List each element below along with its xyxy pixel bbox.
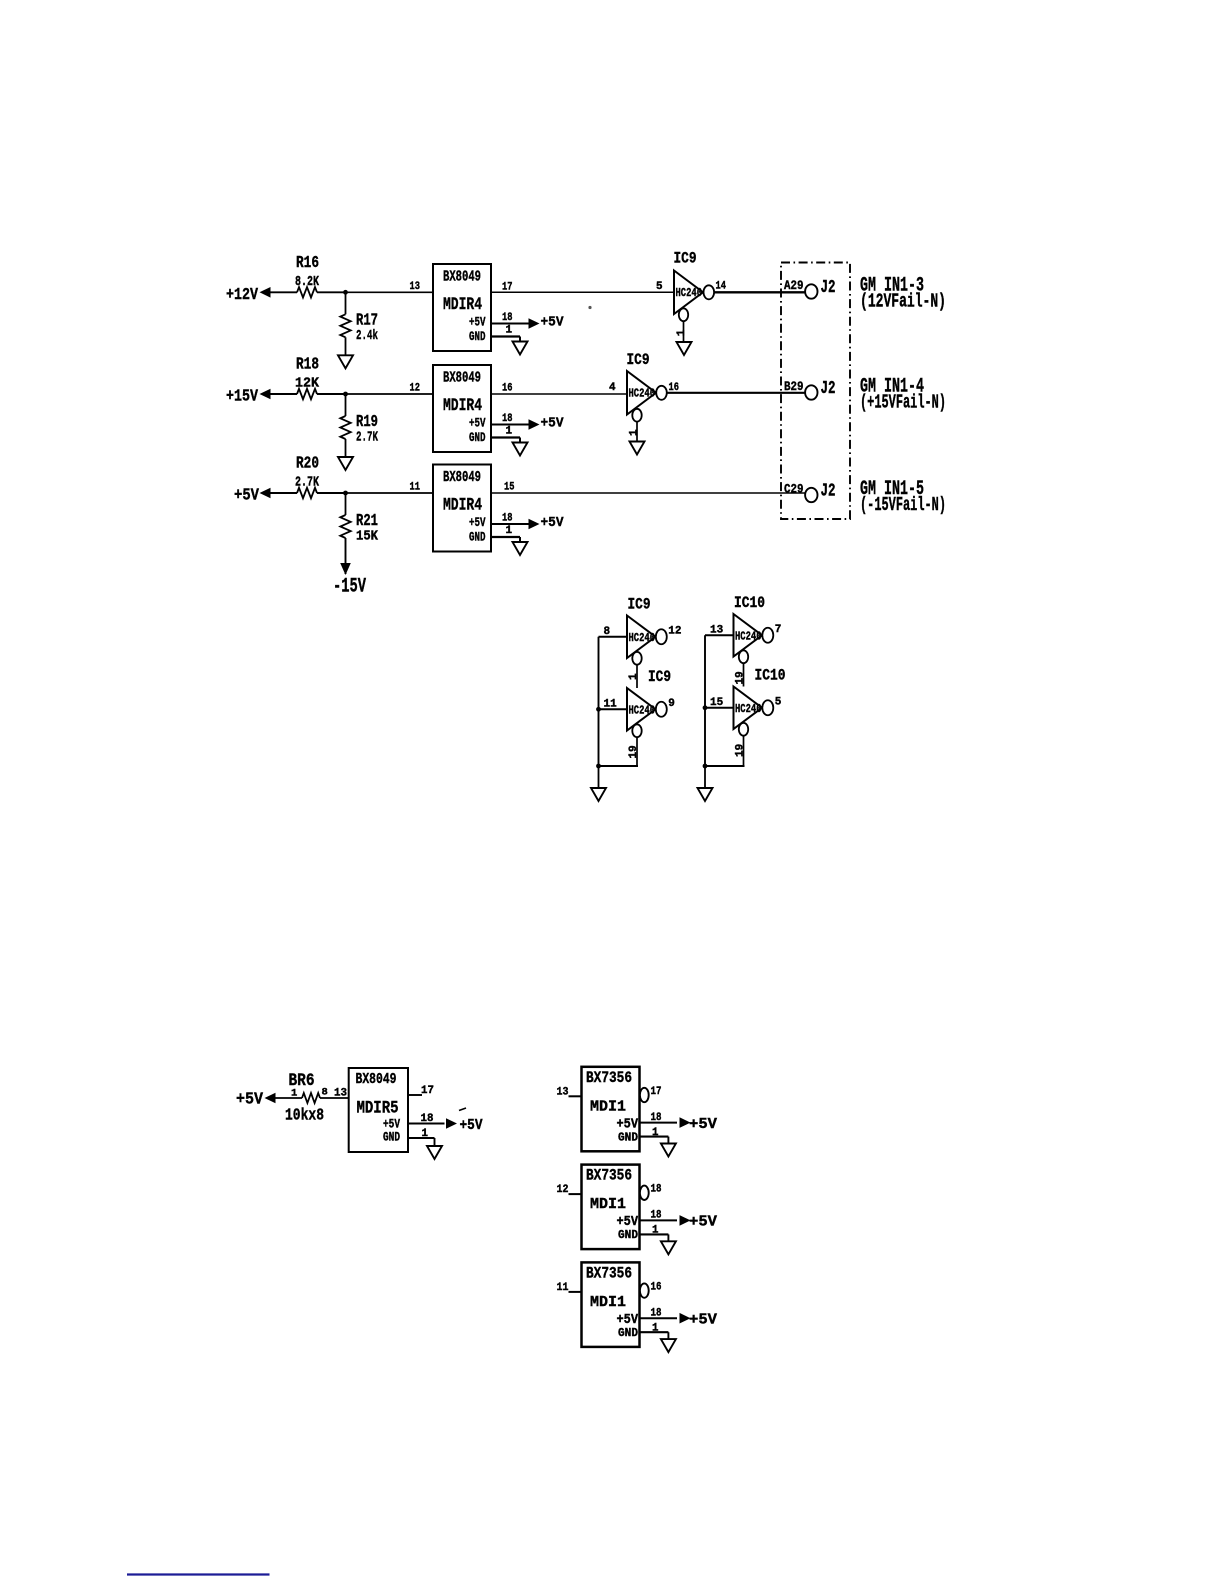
IC BX7356 MDI1 #3 box <box>582 1262 640 1347</box>
wire R16 to node <box>317 291 346 293</box>
svg-text:(-15VFail-N): (-15VFail-N) <box>860 494 946 516</box>
svg-text:MDI1: MDI1 <box>590 1294 626 1311</box>
IC9 gate A output bubble pin 14 <box>704 281 727 300</box>
svg-text:IC9: IC9 <box>627 351 650 369</box>
svg-text:8: 8 <box>322 1087 328 1099</box>
node junction row1 <box>343 290 348 295</box>
svg-text:18: 18 <box>502 513 513 525</box>
op-amp buffer IC10 gate 1 <box>734 594 766 657</box>
wire +5V arrow <box>260 488 298 499</box>
svg-text:13: 13 <box>410 281 421 293</box>
op-amp buffer IC9 gate A (row1) <box>674 250 704 315</box>
svg-text:12: 12 <box>410 383 421 395</box>
svg-text:19: 19 <box>735 671 747 684</box>
MDIR4 pin 1 GND wire <box>491 426 520 443</box>
svg-text:10kx8: 10kx8 <box>285 1107 324 1126</box>
svg-text:+5V: +5V <box>541 515 565 531</box>
svg-text:BX8049: BX8049 <box>443 370 481 387</box>
IC BX7356 MDI1 #2 box <box>582 1165 640 1250</box>
op-amp buffer IC9 gate 1 <box>627 596 656 659</box>
resistor R18 <box>295 355 320 400</box>
IC10 gate2 enable bubble <box>739 723 748 736</box>
ground at MDIR4 row1 <box>513 342 528 355</box>
svg-text:HC240: HC240 <box>629 387 656 401</box>
MDIR4 pin 1 GND wire <box>491 525 520 542</box>
svg-text:+5V: +5V <box>460 1118 483 1134</box>
net +5V at MDI1 #3 <box>689 1312 717 1328</box>
svg-text:MDIR5: MDIR5 <box>357 1099 399 1119</box>
wire to -15V arrow <box>340 538 351 575</box>
svg-text:MDI1: MDI1 <box>590 1098 626 1115</box>
svg-text:+5V: +5V <box>541 416 565 432</box>
input rail wire for IC9 pair <box>598 637 600 766</box>
wire node to MDIR4 pin 11 <box>346 482 434 494</box>
op-amp buffer IC9 gate 2 <box>627 668 671 731</box>
MDIR4 pin 18 +5V wire <box>491 513 540 530</box>
wire input pin 13 of IC10 gate1 <box>705 624 734 636</box>
svg-text:GND: GND <box>469 531 486 545</box>
wire +12V arrow <box>260 287 298 298</box>
svg-text:1: 1 <box>676 329 688 336</box>
svg-text:J2: J2 <box>821 277 836 298</box>
wire BR6 to MDIR5 pin 13 <box>320 1097 349 1099</box>
bottom wire IC9 pair <box>596 764 638 769</box>
wire input pin 15 of IC10 gate2 <box>703 697 734 710</box>
wire MDIR4 pin 15 to J2 C29 <box>491 482 805 494</box>
IC BX7356 MDI1 #1 input pin 13 <box>557 1086 582 1098</box>
node junction row3 <box>343 491 348 496</box>
wire MDIR4 pin 17 to IC9 input pin 5 <box>491 281 674 294</box>
svg-text:-15V: -15V <box>333 576 366 599</box>
svg-text:+5V: +5V <box>541 315 565 331</box>
svg-text:11: 11 <box>410 482 421 494</box>
MDIR4 pin 18 +5V wire <box>491 312 540 329</box>
svg-text:(12VFail-N): (12VFail-N) <box>860 290 946 312</box>
MDI1 #2 pin 1 GND wire <box>640 1225 669 1242</box>
IC9 gate1 output bubble pin 12 <box>656 625 682 644</box>
ground IC10 pair <box>698 788 713 801</box>
svg-text:13: 13 <box>557 1086 569 1098</box>
svg-text:4: 4 <box>609 382 616 394</box>
connector pin A29 J2 <box>784 277 836 299</box>
ground at MDI1 #1 <box>661 1144 676 1157</box>
net +5V at BR6 <box>236 1091 264 1110</box>
IC10 gate2 output bubble pin 5 <box>762 696 782 715</box>
ground at MDI1 #3 <box>661 1339 676 1352</box>
resistor R19 <box>340 394 378 446</box>
svg-text:GND: GND <box>618 1327 638 1340</box>
node junction row2 <box>343 392 348 397</box>
net +5V row2 <box>541 416 565 432</box>
svg-text:15: 15 <box>710 697 724 709</box>
svg-text:19: 19 <box>735 744 747 757</box>
wire node to MDIR4 pin 13 <box>346 281 434 293</box>
svg-text:MDIR4: MDIR4 <box>443 496 482 516</box>
svg-text:13: 13 <box>710 624 724 636</box>
resistor R20 <box>295 454 320 499</box>
svg-text:+5V: +5V <box>469 417 486 431</box>
svg-text:18: 18 <box>421 1113 434 1125</box>
IC U1 BX8049 MDIR4 box <box>433 264 491 351</box>
svg-text:15: 15 <box>504 482 515 494</box>
wire IC9 gate B output to J2 B29 <box>667 392 805 394</box>
svg-text:+5V: +5V <box>689 1215 717 1231</box>
resistor R21 <box>340 493 379 545</box>
net +5V at MDIR5 <box>459 1108 483 1134</box>
IC BX7356 MDI1 #3 input pin 11 <box>557 1282 582 1294</box>
svg-text:14: 14 <box>716 281 727 293</box>
svg-text:MDI1: MDI1 <box>590 1196 626 1213</box>
svg-text:MDIR4: MDIR4 <box>443 396 482 416</box>
svg-text:+5V: +5V <box>234 486 259 505</box>
svg-text:GND: GND <box>618 1131 638 1144</box>
MDIR5 pin 1 GND wire <box>408 1128 435 1146</box>
IC9 gate B enable bubble <box>632 409 641 422</box>
svg-text:12: 12 <box>557 1184 569 1196</box>
svg-text:BX7356: BX7356 <box>586 1167 632 1185</box>
svg-text:1: 1 <box>629 429 641 436</box>
svg-text:1: 1 <box>506 525 513 537</box>
svg-text:R16: R16 <box>296 253 319 272</box>
net rail +15V <box>226 387 258 406</box>
svg-text:BX7356: BX7356 <box>586 1264 632 1282</box>
svg-text:1: 1 <box>652 1127 659 1139</box>
ground below R19 <box>338 439 353 470</box>
svg-text:18: 18 <box>502 413 513 425</box>
svg-text:A29: A29 <box>784 279 804 293</box>
svg-text:7: 7 <box>775 624 782 636</box>
svg-text:18: 18 <box>651 1184 662 1196</box>
svg-text:MDIR4: MDIR4 <box>443 295 482 315</box>
svg-text:15K: 15K <box>356 530 379 545</box>
svg-text:17: 17 <box>421 1085 434 1097</box>
MDI1 #1 output bubble pin 17 <box>640 1086 662 1102</box>
bottom wire IC10 pair <box>703 764 745 769</box>
svg-text:+5V: +5V <box>689 1117 717 1133</box>
svg-text:IC9: IC9 <box>674 250 697 268</box>
net -15V <box>333 576 366 599</box>
svg-text:16: 16 <box>651 1281 662 1293</box>
svg-text:IC9: IC9 <box>628 596 651 614</box>
IC9 gate A enable bubble <box>679 308 688 321</box>
MDIR4 pin 18 +5V wire <box>491 413 540 430</box>
svg-text:(+15VFail-N): (+15VFail-N) <box>860 391 946 413</box>
svg-text:BX7356: BX7356 <box>586 1069 632 1087</box>
svg-text:IC10: IC10 <box>734 594 765 612</box>
svg-text:18: 18 <box>651 1307 662 1319</box>
net label GM IN1-4 (+15VFail-N) <box>860 375 946 413</box>
MDIR4 pin 1 GND wire <box>491 325 520 342</box>
svg-text:R17: R17 <box>356 310 378 329</box>
wire node to MDIR4 pin 12 <box>346 383 434 395</box>
input rail wire for IC10 pair <box>704 635 706 766</box>
svg-text:HC240: HC240 <box>629 703 656 717</box>
ground at IC9 gate B enable <box>630 442 645 455</box>
svg-text:+12V: +12V <box>226 285 258 304</box>
svg-text:IC9: IC9 <box>648 668 671 686</box>
svg-text:16: 16 <box>502 383 513 395</box>
svg-text:1: 1 <box>628 673 640 680</box>
svg-text:11: 11 <box>557 1282 569 1294</box>
svg-text:+5V: +5V <box>469 516 486 530</box>
net +5V at MDI1 #2 <box>689 1215 717 1231</box>
svg-text:1: 1 <box>291 1088 297 1100</box>
ground IC9 pair <box>591 788 606 801</box>
svg-text:HC240: HC240 <box>629 631 656 645</box>
node dot (scan speck) <box>588 306 591 309</box>
svg-text:9: 9 <box>668 698 675 710</box>
svg-text:B29: B29 <box>784 380 804 394</box>
svg-text:1: 1 <box>506 426 513 438</box>
IC U2 BX8049 MDIR4 box <box>433 365 491 452</box>
net rail +12V <box>226 285 258 304</box>
footer rule <box>127 1573 270 1575</box>
wire to ground IC10 pair <box>704 766 706 788</box>
svg-text:J2: J2 <box>821 481 836 502</box>
MDIR5 pin 17 stub <box>408 1085 434 1097</box>
svg-text:1: 1 <box>506 325 513 337</box>
IC BX7356 MDI1 #2 input pin 12 <box>557 1184 582 1196</box>
svg-text:BX8049: BX8049 <box>443 469 481 486</box>
svg-text:18: 18 <box>502 312 513 324</box>
svg-text:8: 8 <box>604 626 611 638</box>
wire IC9 gate A output to J2 A29 <box>714 291 805 293</box>
svg-text:GND: GND <box>383 1130 400 1145</box>
IC10 gate1 enable pin 19 wire <box>735 663 747 686</box>
svg-text:+5V: +5V <box>617 1215 639 1230</box>
svg-text:R18: R18 <box>296 355 319 374</box>
svg-text:2.4k: 2.4k <box>356 329 378 344</box>
ground at MDI1 #2 <box>661 1241 676 1254</box>
ground at MDIR5 <box>427 1146 442 1159</box>
connector pin C29 J2 <box>784 481 836 503</box>
wire MDIR4 pin 16 to IC9 input pin 4 <box>491 382 627 395</box>
IC U3 BX8049 MDIR4 box <box>433 465 491 552</box>
svg-text:BX8049: BX8049 <box>443 269 481 286</box>
svg-text:1: 1 <box>422 1128 429 1140</box>
svg-text:+5V: +5V <box>469 316 486 330</box>
IC U4 BX8049 MDIR5 box <box>349 1068 408 1152</box>
op-amp buffer IC10 gate 2 <box>734 667 786 730</box>
IC9 gate1 enable bubble <box>632 652 641 665</box>
IC9 gate1 enable pin 1 wire <box>628 665 640 688</box>
MDI1 #1 pin 18 +5V wire <box>640 1112 691 1128</box>
resistor network BR6 10kx8 <box>285 1071 347 1126</box>
svg-text:C29: C29 <box>784 483 804 497</box>
svg-text:5: 5 <box>656 281 663 293</box>
svg-text:5: 5 <box>775 696 782 708</box>
svg-text:18: 18 <box>651 1112 662 1124</box>
IC10 gate1 enable bubble <box>739 650 748 663</box>
MDI1 #2 output bubble pin 18 <box>640 1184 662 1200</box>
ground at MDIR4 row3 <box>513 542 528 555</box>
svg-text:+15V: +15V <box>226 387 258 406</box>
svg-text:17: 17 <box>502 282 513 294</box>
IC10 gate1 output bubble pin 7 <box>762 624 781 643</box>
svg-text:GND: GND <box>469 431 486 445</box>
MDIR5 pin 18 +5V wire <box>408 1113 457 1129</box>
wire R20 to node <box>317 492 346 494</box>
net +5V at MDI1 #1 <box>689 1117 717 1133</box>
svg-text:+5V: +5V <box>689 1312 717 1328</box>
connector pin B29 J2 <box>784 378 836 400</box>
net +5V row1 <box>541 315 565 331</box>
wire to ground IC9 pair <box>598 766 600 788</box>
svg-text:19: 19 <box>628 745 640 758</box>
ground at MDIR4 row2 <box>513 443 528 456</box>
IC9 gate2 enable bubble <box>632 724 641 737</box>
svg-text:18: 18 <box>651 1210 662 1222</box>
net +5V row3 <box>541 515 565 531</box>
wire R18 to node <box>317 393 346 395</box>
op-amp buffer IC9 gate B (row2) <box>627 351 657 415</box>
connector J2 body (dashed) <box>781 263 850 520</box>
svg-text:R21: R21 <box>356 511 378 530</box>
svg-text:GND: GND <box>469 330 486 344</box>
ground at IC9 gate A enable <box>677 342 692 355</box>
svg-text:2.7K: 2.7K <box>356 431 379 446</box>
net rail +5V <box>234 486 259 505</box>
wire input pin 11 of IC9 gate2 <box>596 698 627 711</box>
svg-text:IC10: IC10 <box>755 667 786 685</box>
svg-text:HC240: HC240 <box>676 286 703 300</box>
svg-text:+5V: +5V <box>617 1313 639 1328</box>
MDI1 #3 pin 18 +5V wire <box>640 1307 691 1323</box>
svg-text:GND: GND <box>618 1229 638 1242</box>
IC9 gate B enable pin 1 wire <box>629 422 641 442</box>
wire +5V arrow to BR6 <box>265 1093 303 1104</box>
IC9 gate2 enable pin 19 wire <box>628 737 640 766</box>
svg-text:HC240: HC240 <box>735 629 762 643</box>
MDI1 #3 output bubble pin 16 <box>640 1281 662 1297</box>
svg-text:11: 11 <box>604 698 618 710</box>
MDI1 #3 pin 1 GND wire <box>640 1322 669 1339</box>
svg-text:12: 12 <box>668 625 681 637</box>
svg-text:HC240: HC240 <box>735 702 762 716</box>
svg-text:1: 1 <box>652 1322 659 1334</box>
IC9 gate A enable pin 1 wire <box>676 321 688 342</box>
svg-text:1: 1 <box>652 1225 659 1237</box>
net label GM IN1-3 (12VFail-N) <box>860 274 946 312</box>
IC9 gate B output bubble pin 16 <box>656 382 679 400</box>
wire input pin 8 of IC9 gate1 <box>599 626 628 638</box>
IC9 gate2 output bubble pin 9 <box>656 698 675 717</box>
net label GM IN1-5 (-15VFail-N) <box>860 478 946 516</box>
MDI1 #1 pin 1 GND wire <box>640 1127 669 1144</box>
resistor R16 <box>295 253 320 298</box>
svg-text:BX8049: BX8049 <box>356 1072 397 1088</box>
svg-text:+5V: +5V <box>617 1117 639 1132</box>
resistor R17 <box>340 292 378 344</box>
svg-text:J2: J2 <box>821 378 836 399</box>
svg-text:+5V: +5V <box>236 1091 264 1110</box>
svg-text:R19: R19 <box>356 412 378 431</box>
wire +15V arrow <box>260 389 298 400</box>
svg-text:17: 17 <box>651 1086 662 1098</box>
svg-text:R20: R20 <box>296 454 319 473</box>
IC BX7356 MDI1 #1 box <box>582 1067 640 1152</box>
ground below R17 <box>338 337 353 368</box>
MDI1 #2 pin 18 +5V wire <box>640 1210 691 1226</box>
IC10 gate2 enable pin 19 wire <box>735 736 747 766</box>
